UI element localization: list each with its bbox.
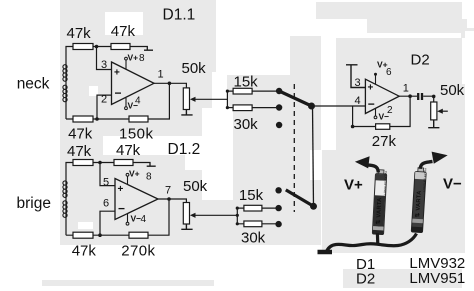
- ground battery: [318, 250, 333, 255]
- wire bridge loop left/top/bottom: [66, 163, 129, 236]
- battery BT2 V-: [411, 167, 427, 232]
- switch S1a pole: [308, 103, 315, 110]
- op-amp D1.2 V+ pin 8: [126, 169, 152, 185]
- potentiometer 50k bridge: [183, 178, 208, 224]
- svg-text:30k: 30k: [241, 229, 266, 246]
- ground T at pin3 D2: [346, 65, 365, 88]
- wire pin2: [97, 95, 112, 119]
- resistor 270k feedback: [121, 232, 155, 259]
- svg-text:6: 6: [386, 67, 392, 78]
- resistor 47k neck bottom: [68, 116, 93, 143]
- wire wiper bridge: [190, 213, 237, 218]
- node junction 15k/30k bridge: [236, 207, 239, 226]
- wire feedback loop D2: [390, 96, 410, 126]
- op-amp D2 V- pin 2: [374, 105, 393, 121]
- inductor neck pickup: [63, 65, 67, 102]
- resistor 15k bridge: [237, 187, 278, 211]
- svg-text:15k: 15k: [239, 187, 264, 204]
- svg-text:1: 1: [158, 69, 164, 81]
- svg-text:7: 7: [165, 185, 171, 197]
- wire output D2 pin 1: [399, 83, 417, 98]
- svg-text:3: 3: [101, 59, 107, 71]
- op-amp D1.1 V- pin 4: [125, 96, 141, 111]
- svg-text:8: 8: [139, 53, 145, 64]
- resistor 15k neck: [227, 74, 279, 95]
- pin 5: [103, 176, 109, 188]
- node B2 junction bottom: [98, 233, 102, 237]
- node A1 junction top: [95, 45, 99, 49]
- ground output pot: [428, 120, 439, 128]
- wire pin6: [100, 211, 115, 235]
- wire poles common: [313, 106, 314, 207]
- wire neck loop left/top/bottom: [66, 47, 129, 120]
- svg-text:D2: D2: [411, 52, 430, 69]
- wire output D1.1 pin 1: [154, 69, 186, 88]
- svg-text:27k: 27k: [372, 133, 397, 150]
- svg-text:47k: 47k: [116, 142, 141, 159]
- label D2: [411, 52, 430, 69]
- wire pin3: [97, 47, 112, 70]
- svg-text:V+: V+: [129, 169, 140, 179]
- svg-text:47k: 47k: [68, 126, 93, 143]
- svg-text:⇅ VARTA: ⇅ VARTA: [375, 197, 383, 225]
- node B1 junction bottom: [95, 117, 99, 121]
- switch S1a contacts: [276, 88, 282, 128]
- svg-text:4: 4: [355, 95, 361, 107]
- resistor 27k feedback D2: [372, 124, 397, 150]
- switch S1b contacts: [275, 187, 281, 227]
- resistor 47k neck top-right: [111, 23, 136, 50]
- svg-text:50k: 50k: [182, 60, 207, 77]
- pin 6: [103, 198, 109, 210]
- svg-text:47k: 47k: [67, 25, 92, 42]
- svg-text:8: 8: [146, 172, 152, 183]
- label D1.1: [163, 7, 196, 24]
- svg-text:47k: 47k: [72, 243, 97, 260]
- wire pole to pin4 D2: [312, 105, 366, 107]
- svg-text:brige: brige: [17, 195, 51, 212]
- op-amp D1.2: [115, 179, 158, 220]
- op-amp D1.1 V+ pin 8: [125, 53, 145, 70]
- op-amp D1.2 V- pin 4: [126, 214, 146, 226]
- label V-: [443, 176, 462, 193]
- wire feedback tap D2: [351, 106, 376, 128]
- wire output D1.2 pin 7: [158, 185, 186, 203]
- wiper output pot: [437, 109, 448, 114]
- svg-text:−: −: [118, 202, 125, 216]
- inductor bridge pickup: [63, 181, 67, 217]
- svg-text:D1.2: D1.2: [168, 141, 201, 158]
- svg-text:270k: 270k: [121, 243, 155, 260]
- svg-text:47k: 47k: [111, 23, 136, 40]
- svg-text:30k: 30k: [234, 116, 259, 133]
- ground mini top: [130, 47, 153, 51]
- legend LMV951: [409, 270, 465, 287]
- potentiometer 50k output: [431, 82, 465, 120]
- op-amp D2: [365, 79, 399, 113]
- resistor 47k neck top-left: [67, 25, 94, 50]
- pin 3: [355, 77, 361, 89]
- svg-text:4: 4: [141, 214, 147, 225]
- dashed link switch gang: [293, 84, 295, 212]
- svg-text:V+: V+: [344, 177, 363, 194]
- label brige: [17, 195, 51, 212]
- svg-text:V−: V−: [443, 176, 462, 193]
- wire battery commons: [326, 233, 417, 253]
- pin 2: [101, 94, 107, 106]
- svg-text:V+: V+: [128, 53, 139, 63]
- svg-text:6: 6: [103, 198, 109, 210]
- svg-text:50k: 50k: [440, 82, 465, 99]
- svg-text:2: 2: [101, 94, 107, 106]
- wire pin5: [100, 163, 115, 186]
- switch S1b pole: [310, 203, 317, 210]
- wire wiper neck: [190, 97, 228, 102]
- svg-text:LMV951: LMV951: [409, 270, 465, 287]
- switch S1a lever: [279, 91, 311, 106]
- ground pot bridge: [181, 224, 192, 229]
- svg-text:+: +: [114, 68, 120, 79]
- label D1.2: [168, 141, 201, 158]
- svg-text:1: 1: [403, 83, 409, 95]
- legend D2: [356, 271, 375, 288]
- svg-text:150k: 150k: [119, 126, 154, 143]
- svg-text:3: 3: [355, 77, 361, 89]
- svg-text:−: −: [115, 86, 122, 100]
- resistor 47k bridge top-left: [67, 143, 93, 166]
- svg-text:D1.1: D1.1: [163, 7, 196, 24]
- svg-text:+: +: [368, 83, 374, 94]
- svg-text:2: 2: [387, 105, 393, 116]
- label V+: [344, 177, 363, 194]
- wire cap to pot: [423, 95, 435, 102]
- wire feedback loop D1.1: [148, 83, 169, 119]
- resistor 47k bridge top-right: [114, 142, 141, 166]
- resistor 30k neck: [227, 105, 279, 133]
- legend LMV932: [409, 255, 465, 272]
- svg-text:15k: 15k: [234, 74, 259, 91]
- capacitor output: [418, 93, 422, 100]
- resistor 47k bridge bottom: [72, 232, 97, 259]
- pin 3: [101, 59, 107, 71]
- op-amp D2 V+ pin 6: [374, 60, 392, 85]
- battery BT1 V+: [372, 170, 388, 235]
- resistor 150k feedback: [119, 116, 154, 143]
- svg-text:−: −: [368, 97, 375, 111]
- label neck: [17, 76, 50, 93]
- svg-text:+: +: [118, 184, 124, 195]
- pin 4: [355, 95, 361, 107]
- svg-text:5: 5: [103, 176, 109, 188]
- svg-text:50k: 50k: [183, 178, 208, 195]
- ground pot neck: [181, 110, 192, 115]
- op-amp D1.1: [112, 62, 155, 105]
- resistor 30k bridge: [237, 221, 278, 246]
- legend D1: [356, 256, 375, 273]
- wire feedback loop D1.2: [148, 199, 169, 235]
- svg-text:47k: 47k: [67, 143, 92, 160]
- svg-text:D2: D2: [356, 271, 375, 288]
- node junction 15k/30k neck: [226, 90, 229, 110]
- svg-text:neck: neck: [17, 76, 50, 93]
- svg-text:4: 4: [135, 96, 141, 107]
- node A2 junction top: [98, 161, 102, 165]
- ground mini top bridge: [133, 163, 156, 167]
- switch S1b lever: [286, 190, 314, 206]
- potentiometer 50k neck: [182, 60, 207, 110]
- arrow V- lead: [420, 152, 448, 169]
- arrow V+ lead: [355, 156, 378, 172]
